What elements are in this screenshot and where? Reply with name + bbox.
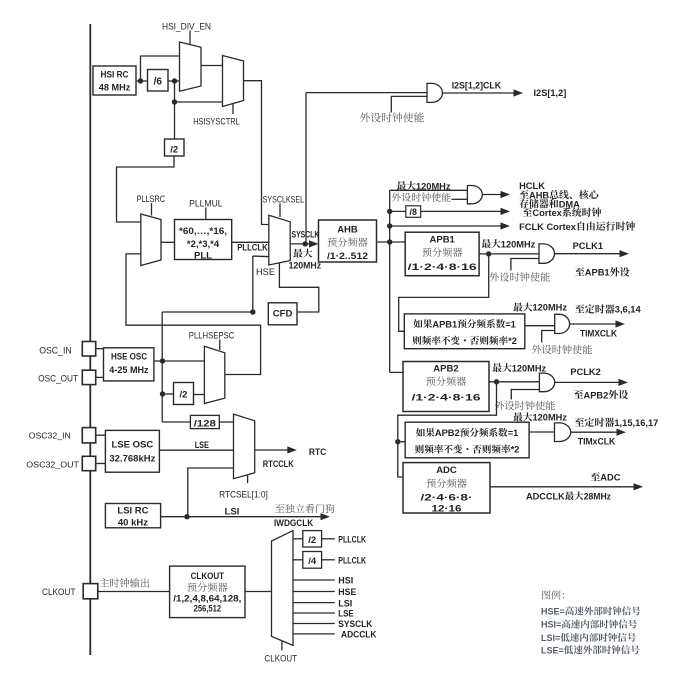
divider /2 out box (303, 531, 322, 547)
wire PCLK1 enable (511, 259, 539, 271)
oscillator HSI RC box (93, 66, 136, 95)
svg-text:*2,*3,*4: *2,*3,*4 (187, 239, 220, 250)
label to timer 3 6 14 (575, 304, 614, 313)
pin OSC32_IN (82, 428, 95, 443)
svg-text:ADC: ADC (436, 465, 457, 476)
node AHB out junction (387, 239, 392, 244)
svg-text:12·16: 12·16 (432, 504, 462, 515)
wire prescaler to CLKOUT mux (245, 591, 272, 593)
mux CLKOUT (272, 531, 294, 646)
divider /2 HSI box (165, 139, 185, 156)
label legend title (542, 590, 564, 599)
svg-text:ADCCLK: ADCCLK (341, 630, 377, 641)
wire /6 to mux (168, 80, 180, 82)
block PLL PLLMUL box (175, 220, 232, 260)
wire /2 to PLLSRC (117, 156, 175, 222)
svg-text:/1·2..512: /1·2..512 (327, 251, 368, 262)
wire HSI RC to /6 (136, 80, 148, 82)
node SYSCLK junction (303, 241, 308, 246)
mux HSI_DIV_EN (180, 42, 202, 91)
wire mux to /2 out (293, 538, 303, 540)
svg-text:LSI: LSI (338, 598, 352, 609)
wire LSE out (159, 449, 233, 451)
svg-text:SYSCLKSEL: SYSCLKSEL (263, 195, 305, 205)
svg-text:/2·4·6·8·: /2·4·6·8· (421, 493, 473, 504)
svg-text:APB1: APB1 (432, 319, 457, 329)
gate AND HCLK (467, 186, 482, 204)
divider /2 HSE box (174, 383, 194, 405)
svg-text:RTCCLK: RTCCLK (263, 459, 294, 470)
svg-text:LSE=: LSE= (541, 645, 564, 655)
wire /128 out (219, 421, 233, 423)
block APB2 prescaler box (403, 362, 489, 412)
label to APB2 periph (574, 390, 583, 399)
svg-text:256,512: 256,512 (194, 604, 222, 614)
wire HSE OSC out (154, 360, 205, 362)
svg-text:HSISYSCTRL: HSISYSCTRL (193, 117, 240, 127)
label max120 APB1 (482, 239, 501, 248)
svg-text:ADCCLK: ADCCLK (526, 491, 565, 501)
wire OSC_OUT to HSE OSC (96, 376, 104, 378)
wire HSE vertical riser (161, 312, 163, 361)
wire ADC out (490, 486, 635, 488)
wire PLLHSEPSC out to PLLSRC (126, 254, 261, 375)
svg-text:*60,…,*16,: *60,…,*16, (179, 226, 227, 237)
wire HSI_DIV_EN control (189, 31, 191, 45)
node HSE junction (160, 358, 165, 363)
label enable TIMX1 (532, 345, 592, 354)
wire APB1 to if-box (399, 254, 489, 331)
node HSE /2 junction (160, 391, 165, 396)
node /6 output junction (172, 78, 177, 83)
wire APB1 out (479, 253, 539, 255)
svg-text:OSC_IN: OSC_IN (39, 345, 71, 355)
arrow FCLK (501, 222, 511, 229)
svg-text:120MHz: 120MHz (533, 413, 568, 423)
gate AND I2S (427, 83, 443, 102)
svg-text:LSI RC: LSI RC (117, 505, 148, 516)
svg-text:120MHz: 120MHz (512, 363, 547, 373)
label to Cortex system clock (523, 208, 532, 217)
divider /6 box (148, 70, 169, 92)
wire SYSCLK out (290, 243, 312, 245)
wire PCLK2 out (555, 381, 620, 383)
svg-text:Cortex: Cortex (532, 208, 562, 218)
svg-text:PCLK2: PCLK2 (570, 367, 600, 377)
block APB1 prescaler box (405, 232, 479, 276)
svg-text:PLLSRC: PLLSRC (137, 194, 166, 204)
svg-text:=1: =1 (505, 319, 516, 329)
wire mux1 to mux2 (201, 65, 223, 67)
mux PLLSRC (141, 214, 161, 266)
arrow I2S out (514, 89, 524, 96)
arrow cortex clock (501, 208, 511, 215)
wire APB2 to if-box and ADC (398, 382, 497, 477)
label max120 TIMX2 (513, 412, 532, 421)
svg-text:3,6,14: 3,6,14 (615, 305, 642, 315)
gate AND PCLK1 (539, 244, 555, 263)
wire HSISYSCTRL out to SYSCLKSEL (244, 81, 269, 225)
svg-text:120MHz: 120MHz (501, 239, 536, 249)
wire RTCSEL control (247, 476, 249, 484)
mux SYSCLKSEL (269, 215, 290, 265)
svg-text:IWDGCLK: IWDGCLK (274, 518, 314, 528)
svg-text:HSE=: HSE= (541, 607, 565, 617)
svg-text:32.768kHz: 32.768kHz (109, 454, 155, 465)
block CFD box (268, 303, 297, 325)
arrow PCLK2 (619, 379, 629, 386)
divider /128 box (190, 415, 219, 428)
wire HSE up to SYSCLKSEL (252, 256, 254, 312)
wire CLKOUT mux control (281, 641, 283, 650)
svg-text:1,15,16,17: 1,15,16,17 (614, 418, 658, 428)
label enable PCLK2 (495, 401, 555, 410)
svg-text:120MHz: 120MHz (416, 181, 451, 191)
gate AND PCLK2 (539, 373, 554, 392)
wire mux LSE in (293, 612, 335, 614)
arrow IWDG (321, 513, 331, 520)
pin OSC32_OUT (82, 456, 95, 470)
svg-text:/2: /2 (308, 535, 316, 546)
svg-text:APB1: APB1 (585, 268, 610, 278)
svg-text:PCLK1: PCLK1 (573, 241, 603, 251)
svg-text:AHB: AHB (529, 190, 549, 200)
wire TIMX out (570, 323, 617, 325)
wire HCLK enable stub (452, 198, 468, 200)
wire mux HSE in (293, 591, 335, 593)
wire mux to /4 out (293, 559, 303, 561)
svg-text:ADC: ADC (600, 473, 620, 483)
node if APB2 junction (395, 439, 400, 444)
node bus junction FCLK (387, 223, 392, 228)
label to AHB bus (519, 190, 528, 199)
wire TIMx out (571, 431, 618, 433)
label max120 HCLK (397, 181, 416, 190)
svg-text:*2: *2 (511, 445, 520, 455)
svg-text:APB2: APB2 (584, 390, 609, 400)
block if APB2 presc box (405, 422, 529, 458)
node bus junction /8 (387, 209, 392, 214)
wire /8 out (421, 210, 503, 212)
wire bus to APB2 (390, 371, 403, 373)
arrow into AHB (309, 240, 319, 247)
svg-text:/1,2,4,8,64,128,: /1,2,4,8,64,128, (173, 594, 241, 604)
wire PLLCLK (232, 241, 269, 243)
mux HSISYSCTRL (223, 56, 244, 107)
node HSI RC output junction (138, 78, 143, 83)
svg-text:PLLCLK: PLLCLK (338, 534, 366, 545)
svg-text:28MHz: 28MHz (584, 491, 612, 501)
pin OSC_OUT (82, 370, 95, 384)
wire CLKOUT pin to prescaler (98, 591, 170, 593)
wire RTC out (255, 449, 290, 451)
wire PCLK2 enable (511, 390, 539, 400)
block if APB1 presc box (404, 314, 525, 349)
divider /4 out box (303, 552, 322, 569)
label to timer 1 15 16 17 (575, 418, 614, 427)
svg-text:CLKOUT: CLKOUT (191, 571, 225, 582)
wire SYSCLKSEL control (279, 204, 281, 218)
svg-text:LSE: LSE (338, 609, 353, 620)
arrow ADC out (634, 483, 644, 490)
svg-text:48 MHz: 48 MHz (99, 83, 131, 94)
node APB2 out junction (494, 379, 499, 384)
wire junction down (174, 81, 176, 102)
wire FCLK out (390, 225, 503, 227)
svg-text:CLKOUT: CLKOUT (42, 587, 76, 597)
svg-text:HSI_DIV_EN: HSI_DIV_EN (162, 22, 211, 32)
svg-text:LSI=: LSI= (541, 633, 560, 643)
node HSE CFD junction (250, 309, 255, 314)
svg-text:=1: =1 (508, 428, 519, 438)
wire mux SYSCLK in (293, 623, 335, 625)
svg-text:SYSCLK: SYSCLK (338, 619, 372, 630)
arrow TIMX out (616, 320, 626, 327)
svg-text:APB1: APB1 (430, 235, 456, 246)
wire APB2 out (489, 381, 539, 383)
block AHB prescaler box (319, 220, 377, 262)
wire junction to if-box (398, 441, 405, 443)
wire OSC_IN to HSE OSC (96, 348, 104, 350)
svg-text:/128: /128 (194, 418, 216, 429)
svg-text:APB2: APB2 (433, 363, 458, 374)
svg-text:HSI: HSI (338, 576, 353, 587)
node HSI tap junction (172, 99, 177, 104)
pin OSC_IN (82, 342, 95, 357)
arrow HCLK out (501, 191, 511, 198)
wire PLLSRC control (151, 203, 153, 216)
wire OSC32_IN to LSE OSC (96, 434, 106, 436)
svg-text:*2: *2 (508, 336, 517, 346)
svg-text:OSC32_OUT: OSC32_OUT (26, 460, 79, 470)
wire I2S enable (391, 96, 427, 112)
label I2S enable (360, 112, 424, 122)
pin CLKOUT (83, 584, 98, 599)
svg-text:/1·2·4·8·16: /1·2·4·8·16 (408, 262, 477, 273)
wire PLLHSEPSC control (219, 340, 221, 351)
wire main pin rail (89, 24, 91, 655)
svg-text:/8: /8 (410, 207, 417, 217)
wire TIMX enable (542, 331, 555, 343)
oscillator HSE OSC box (104, 348, 154, 381)
svg-text:HSI=: HSI= (541, 620, 561, 630)
svg-text:CLKOUT: CLKOUT (264, 654, 297, 664)
svg-text:/2: /2 (180, 390, 188, 401)
svg-text:PLLMUL: PLLMUL (189, 199, 223, 209)
svg-text:TIMXCLK: TIMXCLK (580, 329, 617, 339)
block CLKOUT prescaler box (170, 566, 245, 618)
svg-text:HSE: HSE (338, 587, 356, 598)
wire I2S out (443, 92, 516, 94)
wire if-box2 to TIMx gate (529, 431, 554, 433)
label max120 APB2 (492, 363, 511, 372)
svg-text:120MHz: 120MHz (289, 261, 322, 271)
arrow RTC (287, 446, 297, 453)
svg-text:TIMxCLK: TIMxCLK (578, 437, 616, 447)
svg-text:40 kHz: 40 kHz (118, 517, 148, 528)
svg-text:I2S[1,2]: I2S[1,2] (534, 88, 567, 98)
svg-text:I2S[1,2]CLK: I2S[1,2]CLK (452, 81, 502, 91)
svg-text:LSI: LSI (225, 506, 240, 516)
gate AND TIMX1 (555, 314, 570, 333)
label max 120MHz under SYSCLK (293, 249, 312, 258)
wire HSISYSCTRL control (232, 104, 234, 114)
wire PLLMUL control (205, 208, 207, 220)
wire HSE down (161, 361, 163, 422)
label to IWDG (275, 504, 334, 513)
wire if-box to TIMX gate (525, 325, 555, 327)
wire mux ADCCLK in (293, 633, 335, 635)
svg-text:120MHz: 120MHz (533, 303, 568, 313)
label enable PCLK1 (490, 272, 550, 281)
svg-text:CFD: CFD (273, 309, 293, 320)
mux RTCSEL (234, 414, 255, 479)
svg-text:HSE: HSE (256, 267, 275, 277)
svg-text:FCLK Cortex: FCLK Cortex (519, 222, 577, 232)
wire HSE to /128 (162, 421, 190, 423)
wire to /2 HSE (162, 393, 173, 395)
gate AND TIMX2 (555, 423, 571, 442)
wire /2 HSE out (194, 394, 205, 396)
label enable HCLK (392, 193, 451, 202)
svg-text:APB2: APB2 (435, 428, 460, 438)
svg-text:HSI RC: HSI RC (101, 70, 129, 81)
svg-text:PLLCLK: PLLCLK (338, 555, 366, 566)
oscillator LSI RC box (105, 504, 160, 528)
wire /8 in (390, 210, 406, 212)
svg-text:LSE OSC: LSE OSC (112, 440, 154, 451)
label storage and DMA (519, 199, 558, 208)
wire PCLK1 out (555, 253, 622, 255)
svg-text:OSC32_IN: OSC32_IN (29, 431, 71, 441)
wire /2 out to label (322, 538, 335, 540)
wire mux HSI in (293, 579, 335, 581)
svg-text:RTCSEL[1:0]: RTCSEL[1:0] (219, 489, 268, 499)
wire SYSCLK to I2S gate (305, 93, 307, 244)
svg-text:4-25 MHz: 4-25 MHz (109, 365, 149, 376)
label to APB1 periph (575, 267, 584, 276)
wire PLLSRC out (161, 241, 175, 243)
wire LSI out (161, 516, 323, 518)
label max120 TIMX1 (513, 302, 532, 311)
wire CFD loop to SYSCLKSEL (279, 263, 318, 313)
node LSI junction (184, 514, 189, 519)
wire /4 out to label (322, 559, 335, 561)
wire LSI to RTC mux (188, 468, 234, 517)
wire HCLK bus vertical (389, 190, 391, 372)
label to ADC (591, 472, 600, 481)
wire bus elbow to HCLK gate (390, 189, 468, 191)
wire mux LSI in (293, 602, 335, 604)
wire HSI direct to mux (141, 56, 180, 81)
svg-text:AHB: AHB (337, 225, 358, 236)
wire OSC32_OUT to LSE OSC (96, 463, 106, 465)
wire HSE horizontal (162, 311, 253, 313)
svg-text:RTC: RTC (309, 447, 327, 458)
node APB1 out junction (486, 251, 491, 256)
svg-text:PLLHSEPSC: PLLHSEPSC (189, 331, 235, 341)
svg-text:/6: /6 (154, 77, 163, 88)
svg-text:/2: /2 (170, 145, 178, 156)
divider /8 box (406, 206, 421, 218)
svg-text:/4: /4 (308, 556, 317, 567)
arrow TIMx out (617, 429, 627, 436)
svg-text:HSE OSC: HSE OSC (111, 352, 147, 363)
svg-text:LSE: LSE (195, 440, 209, 451)
label main clock out (100, 578, 150, 587)
svg-text:PLLCLK: PLLCLK (237, 243, 268, 253)
wire AHB out (377, 241, 406, 243)
mux PLLHSEPSC (204, 346, 224, 403)
svg-text:OSC_OUT: OSC_OUT (38, 374, 78, 384)
svg-text:/1·2·4·8·16: /1·2·4·8·16 (412, 392, 481, 403)
wire HCLK out (482, 194, 503, 196)
wire tap to HSISYSCTRL mux (175, 101, 223, 103)
svg-text:PLL: PLL (194, 251, 212, 262)
oscillator LSE OSC box (105, 430, 159, 472)
arrow PCLK1 (620, 250, 630, 257)
wire tap down to /2 (174, 102, 176, 139)
block ADC prescaler box (403, 463, 490, 513)
